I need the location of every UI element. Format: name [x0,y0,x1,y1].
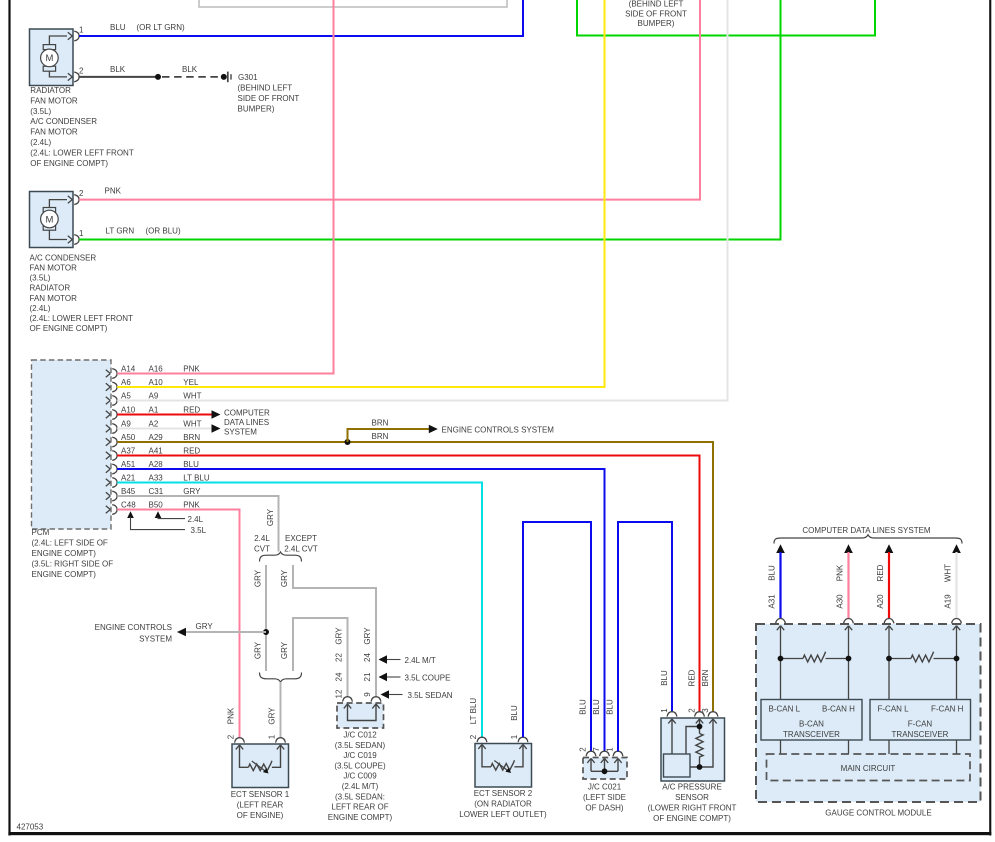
arrow 3.5L pin column [127,511,134,518]
svg-text:ENGINE CONTROLS: ENGINE CONTROLS [95,623,172,632]
svg-text:A19: A19 [944,594,953,609]
motor M2 lead pin 2 [49,200,67,208]
gauge control module box [756,624,981,802]
svg-text:CVT: CVT [254,545,270,554]
connector J/C C012 right pin [371,697,381,702]
wire PNK PCM C48 to ECT sensor 1 pin 2 [117,510,239,738]
connector ECT1 pin 2 [235,738,245,743]
svg-text:PCM: PCM [32,528,50,537]
svg-text:PNK: PNK [227,707,236,724]
brace merge to ECT sensor 1 [260,673,302,683]
connector J/C C012 left pin [343,697,353,702]
svg-text:A16: A16 [149,365,164,374]
svg-text:RED: RED [876,564,885,581]
svg-text:2: 2 [79,189,84,198]
connector J/C C021 pin 2 [586,751,596,756]
F-CAN transceiver box [870,700,971,741]
wire RED PCM A10 stub [117,414,212,416]
svg-text:C31: C31 [149,487,164,496]
PCM pin A37/A41 connector [112,451,117,461]
svg-text:BLU: BLU [592,699,601,715]
svg-text:B-CAN L: B-CAN L [769,704,801,713]
connector M1 pin 2 [74,72,79,82]
svg-text:ECT SENSOR 2: ECT SENSOR 2 [474,789,533,798]
svg-text:ENGINE COMPT): ENGINE COMPT) [328,813,393,822]
junction F-CAN dots [886,656,892,662]
svg-text:PNK: PNK [836,564,845,581]
PCM pin A10/A1 connector [112,410,117,420]
svg-text:A51: A51 [121,460,136,469]
brace computer data lines [774,535,962,544]
page left border [8,0,10,836]
svg-text:LT BLU: LT BLU [183,474,210,483]
svg-text:J/C C019: J/C C019 [343,751,377,760]
svg-text:A29: A29 [149,433,164,442]
svg-text:LT GRN: LT GRN [106,227,135,236]
wire BRN branch to engine controls [348,429,430,442]
svg-text:GRY: GRY [280,641,289,659]
svg-text:A37: A37 [121,447,136,456]
svg-text:GRY: GRY [254,641,263,659]
arrow RED to computer data lines [885,544,894,553]
svg-text:OF ENGINE COMPT): OF ENGINE COMPT) [30,324,108,333]
svg-text:A14: A14 [121,365,136,374]
motor M1 lead pin 2 [49,71,67,77]
svg-text:BLU: BLU [183,460,199,469]
svg-text:RADIATOR: RADIATOR [30,284,71,293]
ground G301 symbol [221,74,227,80]
svg-text:B-CAN H: B-CAN H [822,704,855,713]
connector gauge A20 [884,619,894,624]
svg-text:A30: A30 [836,594,845,609]
svg-text:RED: RED [687,669,696,686]
wire BLU J/C C021 pin 1 to pressure sensor pin 1 [618,522,672,751]
svg-text:(2.4L): (2.4L) [30,304,51,313]
svg-text:G301: G301 [238,73,258,82]
junction B-CAN dots [778,656,784,662]
svg-text:1: 1 [79,26,84,35]
page right border [989,0,991,836]
arrow computer data lines 2 [212,424,221,433]
PCM pin A9/A2 connector [112,424,117,434]
svg-text:B45: B45 [121,487,136,496]
svg-text:1: 1 [510,734,519,739]
svg-text:(3.5L: RIGHT SIDE OF: (3.5L: RIGHT SIDE OF [32,560,114,569]
svg-text:F-CAN: F-CAN [908,720,933,729]
PCM pin A21/A33 connector [112,478,117,488]
PCM pin B45/C31 connector [112,491,117,501]
svg-text:SYSTEM: SYSTEM [139,634,172,643]
PCM pin A14/A16 connector [112,369,117,379]
svg-text:GRY: GRY [254,569,263,587]
svg-text:BLK: BLK [182,65,198,74]
wire PNK from M2 pin 2 [79,0,700,200]
arrow computer data lines 1 [212,410,221,419]
svg-text:BUMPER): BUMPER) [638,19,675,28]
svg-text:A21: A21 [121,474,136,483]
svg-text:PNK: PNK [105,187,122,196]
brace split 2.4L CVT / EXCEPT 2.4L CVT [260,552,302,562]
wire BLU gauge A31 [779,552,781,619]
wires transceivers to main circuit [781,740,957,754]
wire LT BLU PCM A21 to ECT sensor 2 pin 2 [117,483,482,738]
svg-text:427053: 427053 [17,823,44,832]
svg-text:SIDE OF FRONT: SIDE OF FRONT [625,9,687,18]
svg-text:3.5L: 3.5L [191,526,207,535]
pressure sensor element box [664,754,691,777]
svg-text:1: 1 [79,229,84,238]
svg-text:RED: RED [183,406,200,415]
connector J/C C021 pin 7 [600,751,610,756]
wire RED gauge A20 [888,552,890,619]
wire GRY PCM B45 [117,496,278,552]
motor M2 symbol [43,208,55,213]
svg-text:J/C C012: J/C C012 [343,731,377,740]
resistor in pressure sensor [696,734,703,757]
svg-text:(LOWER RIGHT FRONT: (LOWER RIGHT FRONT [648,804,737,813]
wire LT GRN from M2 pin 1 [79,0,780,240]
svg-text:GRY: GRY [268,707,277,725]
svg-text:(LEFT SIDE: (LEFT SIDE [583,793,626,802]
wire BLU ECT2 pin 1 to J/C C021 pin 2 [523,522,591,751]
svg-text:A31: A31 [768,594,777,609]
svg-text:RED: RED [183,447,200,456]
motor M2 lead pin 1 [49,230,67,239]
wire BLK dashed to G301 [162,76,220,78]
svg-text:2: 2 [687,708,696,713]
svg-text:TRANSCEIVER: TRANSCEIVER [783,730,840,739]
connector gauge A19 [952,619,962,624]
wire BLK from M1 pin 2 [79,76,158,78]
svg-text:RADIATOR: RADIATOR [30,86,71,95]
svg-text:(2.4L: LOWER LEFT FRONT: (2.4L: LOWER LEFT FRONT [30,148,134,157]
wire YEL PCM A6 to top [117,0,604,387]
junction pressure splice lower [697,764,703,770]
PCM pin C48/B50 connector [112,505,117,515]
svg-text:A50: A50 [121,433,136,442]
svg-text:(OR LT GRN): (OR LT GRN) [137,23,185,32]
svg-text:A28: A28 [149,460,164,469]
main circuit box [767,754,971,781]
arrow engine controls system left [177,628,186,637]
svg-text:BUMPER): BUMPER) [238,105,275,114]
wire WHT PCM A9 stub [117,428,212,430]
svg-text:GRY: GRY [363,627,372,645]
svg-text:M: M [45,53,53,64]
PCM pin A51/A28 connector [112,464,117,474]
svg-text:BLU: BLU [660,670,669,686]
svg-text:A/C CONDENSER: A/C CONDENSER [30,253,97,262]
J/C C012 box [337,703,384,728]
svg-text:FAN MOTOR: FAN MOTOR [30,128,78,137]
svg-text:(BEHIND LEFT: (BEHIND LEFT [629,0,684,9]
wire GRN loop top right [577,0,875,36]
a/c condenser fan motor box [30,192,74,248]
svg-text:WHT: WHT [944,564,953,582]
svg-text:A10: A10 [149,378,164,387]
svg-text:A5: A5 [121,392,131,401]
ECT sensor 1 box [232,744,289,788]
svg-text:SYSTEM: SYSTEM [224,428,257,437]
svg-text:A/C CONDENSER: A/C CONDENSER [30,117,97,126]
B-CAN transceiver box [761,700,862,741]
svg-text:2: 2 [227,734,236,739]
svg-text:(BEHIND LEFT: (BEHIND LEFT [238,84,293,93]
connector M2 pin 1 [74,235,79,245]
J/C C021 box [583,758,627,780]
svg-text:A2: A2 [149,420,159,429]
wire WHT PCM A5 to top [117,0,727,401]
svg-text:J/C C009: J/C C009 [343,772,377,781]
svg-text:COMPUTER: COMPUTER [224,408,270,417]
svg-text:3.5L COUPE: 3.5L COUPE [405,674,451,683]
svg-text:A6: A6 [121,378,131,387]
svg-text:(LEFT REAR: (LEFT REAR [237,801,284,810]
arrow WHT to computer data lines [952,544,961,553]
thermistor ECT1 [240,746,281,767]
terminating resistor B-CAN [781,658,849,660]
radiator fan motor box [30,29,74,86]
svg-text:(2.4L: LEFT SIDE OF: (2.4L: LEFT SIDE OF [32,539,108,548]
svg-text:BLU: BLU [768,565,777,581]
svg-text:EXCEPT: EXCEPT [285,534,317,543]
svg-text:A41: A41 [149,447,164,456]
connector pressure pin 3 [708,712,718,717]
J/C C012 bus bar [348,705,377,721]
junction pressure splice upper [697,724,703,730]
svg-text:WHT: WHT [183,420,201,429]
J/C C021 bus [591,759,618,771]
svg-text:B50: B50 [149,501,164,510]
svg-text:OF DASH): OF DASH) [585,804,624,813]
arrow 3.5L SEDAN [381,690,390,698]
svg-text:22: 22 [335,653,344,662]
page bottom border [8,832,991,835]
PCM pin A6/A10 connector [112,382,117,392]
svg-text:24: 24 [363,653,372,662]
svg-text:SENSOR: SENSOR [675,793,709,802]
svg-text:A9: A9 [149,392,159,401]
svg-text:LOWER LEFT OUTLET): LOWER LEFT OUTLET) [459,810,547,819]
svg-text:1: 1 [268,734,277,739]
svg-text:PNK: PNK [183,365,200,374]
svg-text:YEL: YEL [183,378,199,387]
wire GRY to engine controls system [182,631,267,633]
PCM pin A50/A29 connector [112,437,117,447]
wire GRY to ECT sensor 1 pin 1 [280,682,282,738]
junction BRN splice [345,439,351,445]
svg-text:LEFT REAR OF: LEFT REAR OF [331,803,388,812]
arrow PNK to computer data lines [844,544,853,553]
arrow 2.4L pin column [155,511,162,518]
connector J/C C021 pin 1 [613,751,623,756]
svg-text:M: M [45,214,53,225]
wire GRY 2.4L CVT branch [265,565,267,671]
svg-text:BRN: BRN [372,432,389,441]
svg-text:2.4L M/T: 2.4L M/T [405,656,436,665]
svg-text:2: 2 [578,747,587,752]
svg-text:(3.5L): (3.5L) [30,107,51,116]
svg-text:FAN MOTOR: FAN MOTOR [30,264,78,273]
svg-text:9: 9 [363,692,372,697]
svg-text:GRY: GRY [196,622,214,631]
connector gauge A30 [844,619,854,624]
connector ECT2 pin 1 [518,737,528,742]
motor M1 lead pin 1 [49,36,67,45]
wire BLU PCM A51 to J/C C021 pin 7 [117,469,604,751]
arrow BLU to computer data lines [776,544,785,553]
svg-text:2: 2 [469,734,478,739]
svg-text:2.4L: 2.4L [254,534,270,543]
svg-text:BLU: BLU [605,699,614,715]
arrow 2.4L M/T [379,655,388,663]
svg-text:LT BLU: LT BLU [469,698,478,725]
thermistor ECT2 [482,746,523,767]
svg-text:ENGINE COMPT): ENGINE COMPT) [32,549,97,558]
svg-text:2.4L: 2.4L [188,515,204,524]
svg-text:F-CAN L: F-CAN L [878,704,910,713]
svg-text:(3.5L COUPE): (3.5L COUPE) [334,761,386,770]
ECT sensor 2 box [475,744,532,788]
arrow 3.5L COUPE [379,673,388,681]
svg-text:A1: A1 [149,406,159,415]
motor M1 symbol [43,45,55,50]
junction GRY splice [263,629,269,635]
svg-text:(2.4L): (2.4L) [30,138,51,147]
svg-text:BLU: BLU [110,23,126,32]
svg-text:BRN: BRN [183,433,200,442]
junction J/C C021 splice [602,768,608,774]
svg-text:21: 21 [363,672,372,681]
connector gauge A31 [776,619,786,624]
svg-text:SIDE OF FRONT: SIDE OF FRONT [238,94,300,103]
svg-text:GAUGE CONTROL MODULE: GAUGE CONTROL MODULE [825,809,931,818]
wire BRN PCM A50 to pressure sensor [117,442,713,712]
svg-text:(3.5L SEDAN): (3.5L SEDAN) [335,741,386,750]
connector ECT1 pin 1 [276,738,286,743]
cut-off gray box at top [199,0,507,7]
wire PNK PCM A14 to top [117,0,333,374]
svg-text:ECT SENSOR 1: ECT SENSOR 1 [231,790,290,799]
gauge internal wire A31 [780,626,782,700]
svg-text:FAN MOTOR: FAN MOTOR [30,96,78,105]
pressure sensor internal wiring [672,720,713,768]
svg-text:A33: A33 [149,474,164,483]
svg-text:TRANSCEIVER: TRANSCEIVER [892,730,949,739]
arrow engine controls system right [429,425,438,434]
connector M2 pin 2 [74,195,79,205]
junction BLK splice [155,74,161,80]
svg-text:1: 1 [660,708,669,713]
svg-text:(OR BLU): (OR BLU) [146,227,181,236]
svg-text:B-CAN: B-CAN [799,720,824,729]
svg-text:(3.5L): (3.5L) [30,274,51,283]
svg-text:A/C PRESSURE: A/C PRESSURE [662,783,722,792]
connector ECT2 pin 2 [477,737,487,742]
svg-text:ENGINE CONTROLS SYSTEM: ENGINE CONTROLS SYSTEM [442,425,555,434]
svg-text:WHT: WHT [183,392,201,401]
svg-text:BLU: BLU [510,705,519,721]
svg-text:PNK: PNK [183,501,200,510]
svg-text:(3.5L SEDAN:: (3.5L SEDAN: [335,792,385,801]
PCM pin A5/A9 connector [112,396,117,406]
wire BLU from M1 pin 1 [79,0,523,36]
svg-text:DATA LINES: DATA LINES [224,418,269,427]
svg-text:GRY: GRY [183,487,201,496]
terminating resistor F-CAN [889,658,957,660]
svg-text:(2.4L: LOWER LEFT FRONT: (2.4L: LOWER LEFT FRONT [30,314,134,323]
svg-text:GRY: GRY [266,508,275,526]
svg-text:MAIN CIRCUIT: MAIN CIRCUIT [841,764,896,773]
gauge internal wire A30 [848,626,850,700]
wire GRY except branch upper [293,565,376,697]
svg-text:OF ENGINE COMPT): OF ENGINE COMPT) [30,159,108,168]
svg-text:24: 24 [335,672,344,681]
wire PNK gauge A30 [847,552,849,619]
svg-text:2: 2 [79,66,84,75]
svg-text:F-CAN H: F-CAN H [931,704,964,713]
connector pressure pin 1 [667,712,677,717]
svg-text:GRY: GRY [280,569,289,587]
svg-text:OF ENGINE): OF ENGINE) [237,811,284,820]
A/C pressure sensor box [661,718,725,781]
svg-text:COMPUTER DATA LINES SYSTEM: COMPUTER DATA LINES SYSTEM [802,526,931,535]
svg-text:ENGINE COMPT): ENGINE COMPT) [32,570,97,579]
svg-text:FAN MOTOR: FAN MOTOR [30,294,78,303]
wire RED PCM A37 to pressure sensor [117,456,699,712]
svg-text:3.5L SEDAN: 3.5L SEDAN [408,691,453,700]
svg-text:A20: A20 [876,594,885,609]
svg-text:BLU: BLU [578,699,587,715]
gauge internal wire A19 [956,626,958,700]
svg-text:BRN: BRN [372,418,389,427]
svg-text:J/C C021: J/C C021 [588,783,622,792]
svg-text:7: 7 [592,747,601,752]
PCM box [32,360,112,529]
connector pressure pin 2 [695,712,705,717]
svg-text:OF ENGINE COMPT): OF ENGINE COMPT) [653,814,731,823]
svg-text:12: 12 [335,689,344,698]
svg-text:C48: C48 [121,501,136,510]
wire WHT gauge A19 [955,552,957,619]
gauge internal wire A20 [888,626,890,700]
svg-text:A9: A9 [121,420,131,429]
svg-text:3: 3 [701,708,710,713]
svg-text:1: 1 [605,747,614,752]
svg-text:(ON RADIATOR: (ON RADIATOR [474,800,532,809]
connector M1 pin 1 [74,31,79,41]
svg-text:(2.4L M/T): (2.4L M/T) [342,782,379,791]
svg-text:A10: A10 [121,406,136,415]
svg-text:BRN: BRN [701,669,710,686]
svg-text:GRY: GRY [335,627,344,645]
svg-text:BLK: BLK [110,65,126,74]
svg-text:2.4L CVT: 2.4L CVT [284,545,318,554]
wire GRY from J/C C012 pin 12 [293,618,348,697]
